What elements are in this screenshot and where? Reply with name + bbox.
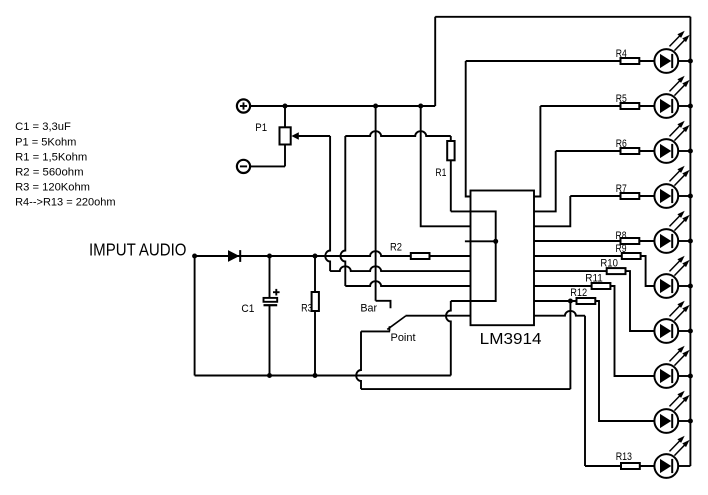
wire LED1 cathode stub bbox=[678, 60, 690, 62]
resistor R10 bbox=[607, 268, 626, 274]
label parts list bbox=[15, 121, 116, 208]
wire R13 row bbox=[585, 465, 655, 467]
junction bus 421 bbox=[688, 419, 693, 424]
wire R6 drop bbox=[534, 151, 556, 211]
switch arm bbox=[387, 316, 405, 329]
junction internal bbox=[493, 239, 498, 244]
wire LED9 cathode stub bbox=[678, 420, 690, 422]
capacitor C1 bbox=[264, 289, 280, 305]
wire LED5 cathode stub bbox=[678, 240, 690, 242]
svg-text:R3: R3 bbox=[301, 303, 313, 315]
svg-text:R1 = 1,5Kohm: R1 = 1,5Kohm bbox=[15, 151, 87, 163]
svg-text:IMPUT AUDIO: IMPUT AUDIO bbox=[89, 240, 187, 260]
wire R7 drop bbox=[534, 196, 570, 226]
wire LED8 cathode stub bbox=[678, 375, 690, 377]
LED D10 bbox=[654, 391, 689, 433]
wire R10 to LED7 bbox=[626, 271, 655, 331]
wire R3 top lead bbox=[314, 256, 316, 292]
svg-text:R7: R7 bbox=[616, 183, 627, 195]
wire R5 drop bbox=[534, 106, 540, 197]
wire top rail riser bbox=[434, 17, 436, 106]
wire R5 row bbox=[540, 105, 654, 107]
wire pin9 row left bbox=[406, 315, 471, 317]
switch contact tick bbox=[389, 326, 391, 331]
wire LED cathode bus bbox=[689, 17, 691, 466]
wire LED6 cathode stub bbox=[678, 285, 690, 287]
wire R1 link drop bbox=[340, 136, 345, 286]
wire main audio line bbox=[195, 251, 471, 256]
junction (315,375.5) bbox=[313, 373, 318, 378]
wire LED10 cathode stub bbox=[678, 465, 690, 467]
svg-text:R3 = 120Kohm: R3 = 120Kohm bbox=[15, 181, 90, 193]
wire second drop bbox=[421, 106, 471, 226]
wire pin8 row right bbox=[534, 300, 577, 302]
junction bus 106 bbox=[688, 104, 693, 109]
wire R4 drop bbox=[466, 61, 471, 197]
svg-text:R2 = 560ohm: R2 = 560ohm bbox=[15, 166, 84, 178]
svg-text:LM3914: LM3914 bbox=[480, 331, 542, 348]
wire R9 row bbox=[534, 255, 641, 257]
svg-text:R5: R5 bbox=[616, 93, 627, 105]
diode D1 bbox=[228, 250, 240, 262]
svg-text:Bar: Bar bbox=[360, 303, 377, 315]
wire Point riser bbox=[569, 301, 571, 389]
wire pin9 row right bbox=[534, 311, 585, 316]
resistor R4 bbox=[621, 58, 640, 64]
junction (420.7,106) bbox=[418, 104, 423, 109]
wire P1 wiper bbox=[299, 135, 331, 137]
wire pin LED6 row bbox=[534, 285, 610, 287]
wire pin7 row bbox=[345, 281, 470, 286]
svg-text:R4: R4 bbox=[616, 48, 627, 60]
wire pin8 drop bbox=[446, 301, 451, 376]
wire R11 to LED8 bbox=[610, 286, 654, 376]
svg-text:R13: R13 bbox=[616, 451, 632, 463]
terminal + input bbox=[237, 99, 250, 112]
resistor R11 bbox=[592, 283, 611, 289]
svg-text:C1: C1 bbox=[241, 303, 254, 315]
resistor R8 bbox=[621, 238, 640, 244]
LED D3 bbox=[654, 76, 689, 118]
wire R9 to LED6 bbox=[641, 256, 655, 286]
wire R1 bottom lead bbox=[450, 160, 452, 211]
wire Point bottom run bbox=[361, 388, 570, 390]
wire input left drop bbox=[194, 256, 196, 376]
wire P1 top stub bbox=[284, 106, 286, 127]
LED D5 bbox=[654, 166, 689, 208]
junction (285,106) bbox=[283, 104, 288, 109]
wire C1 bottom lead bbox=[269, 305, 271, 376]
resistor R2 bbox=[411, 253, 430, 259]
wire R7 row bbox=[570, 195, 654, 197]
junction (570.4,301) bbox=[568, 299, 573, 304]
resistor R3 bbox=[312, 292, 319, 311]
wire minus terminal bbox=[250, 165, 285, 167]
LED D9 bbox=[654, 346, 689, 388]
resistor R13 bbox=[621, 463, 640, 469]
junction bus 331 bbox=[688, 329, 693, 334]
wire R1 into IC bbox=[451, 211, 496, 301]
wire pin9 mode stub bbox=[465, 240, 496, 242]
svg-text:R6: R6 bbox=[616, 138, 627, 150]
wire Point contact bbox=[361, 330, 390, 332]
wire pin6 row bbox=[330, 266, 470, 271]
wire LED2 cathode stub bbox=[678, 105, 690, 107]
junction (269.5,375.5) bbox=[267, 373, 272, 378]
LED D7 bbox=[654, 256, 689, 298]
junction (194.6,256) bbox=[192, 254, 197, 259]
junction bus 151 bbox=[688, 149, 693, 154]
junction (269.5,256) bbox=[267, 254, 272, 259]
svg-text:R2: R2 bbox=[390, 241, 402, 253]
wire R12 to LED9 bbox=[595, 301, 654, 421]
junction bus 196 bbox=[688, 194, 693, 199]
LED D6 bbox=[654, 211, 689, 253]
wire R4 row bbox=[466, 60, 655, 62]
wire R3 bottom lead bbox=[314, 311, 316, 376]
LED D4 bbox=[654, 121, 689, 163]
resistor R7 bbox=[621, 193, 640, 199]
wire LED3 cathode stub bbox=[678, 150, 690, 152]
resistor R12 bbox=[577, 298, 596, 304]
potentiometer P1 bbox=[280, 127, 299, 144]
resistor R9 bbox=[622, 253, 641, 259]
wire Bar stub bbox=[376, 301, 391, 308]
wire pin LED7 row bbox=[534, 270, 607, 272]
LED D2 bbox=[654, 31, 689, 73]
svg-text:R12: R12 bbox=[570, 287, 587, 299]
terminal - input bbox=[237, 160, 250, 173]
resistor R5 bbox=[621, 103, 640, 109]
wire R6 row bbox=[556, 150, 655, 152]
wire LED7 cathode stub bbox=[678, 330, 690, 332]
svg-text:C1 = 3,3uF: C1 = 3,3uF bbox=[15, 121, 71, 133]
wire P1 bottom bbox=[284, 145, 286, 167]
wire LED4 cathode stub bbox=[678, 195, 690, 197]
wire top rail bbox=[435, 16, 690, 18]
wire Point drop bbox=[356, 331, 361, 389]
resistor R6 bbox=[621, 148, 640, 154]
svg-text:R4-->R13 = 220ohm: R4-->R13 = 220ohm bbox=[15, 197, 116, 209]
svg-text:R11: R11 bbox=[585, 273, 603, 285]
junction bus 376 bbox=[688, 374, 693, 379]
junction (315,256) bbox=[313, 254, 318, 259]
svg-text:R1: R1 bbox=[435, 167, 446, 179]
wire V+ drop bbox=[375, 106, 377, 301]
wire R13 riser bbox=[584, 316, 586, 466]
junction bus 61 bbox=[688, 59, 693, 64]
wire R1 top link bbox=[345, 131, 451, 136]
wire R8 row bbox=[534, 240, 655, 242]
resistor R1 bbox=[447, 141, 454, 160]
junction bus 241 bbox=[688, 239, 693, 244]
wire bottom rail bbox=[195, 375, 451, 377]
IC U1 LM3914 box bbox=[471, 191, 535, 326]
svg-text:P1: P1 bbox=[255, 122, 267, 134]
wire R1 top stub bbox=[450, 136, 452, 141]
svg-text:Point: Point bbox=[391, 332, 417, 344]
junction (375.6,106) bbox=[373, 104, 378, 109]
svg-text:P1 = 5Kohm: P1 = 5Kohm bbox=[15, 136, 76, 148]
junction bus 286 bbox=[688, 284, 693, 289]
wire wiper drop bbox=[325, 136, 330, 271]
wire + rail bbox=[250, 105, 435, 107]
LED D8 bbox=[654, 301, 689, 343]
svg-text:R10: R10 bbox=[600, 258, 618, 270]
svg-text:R8: R8 bbox=[616, 230, 627, 242]
wire C1 top lead bbox=[269, 256, 271, 298]
svg-text:R9: R9 bbox=[616, 243, 627, 255]
LED D11 bbox=[654, 436, 689, 478]
